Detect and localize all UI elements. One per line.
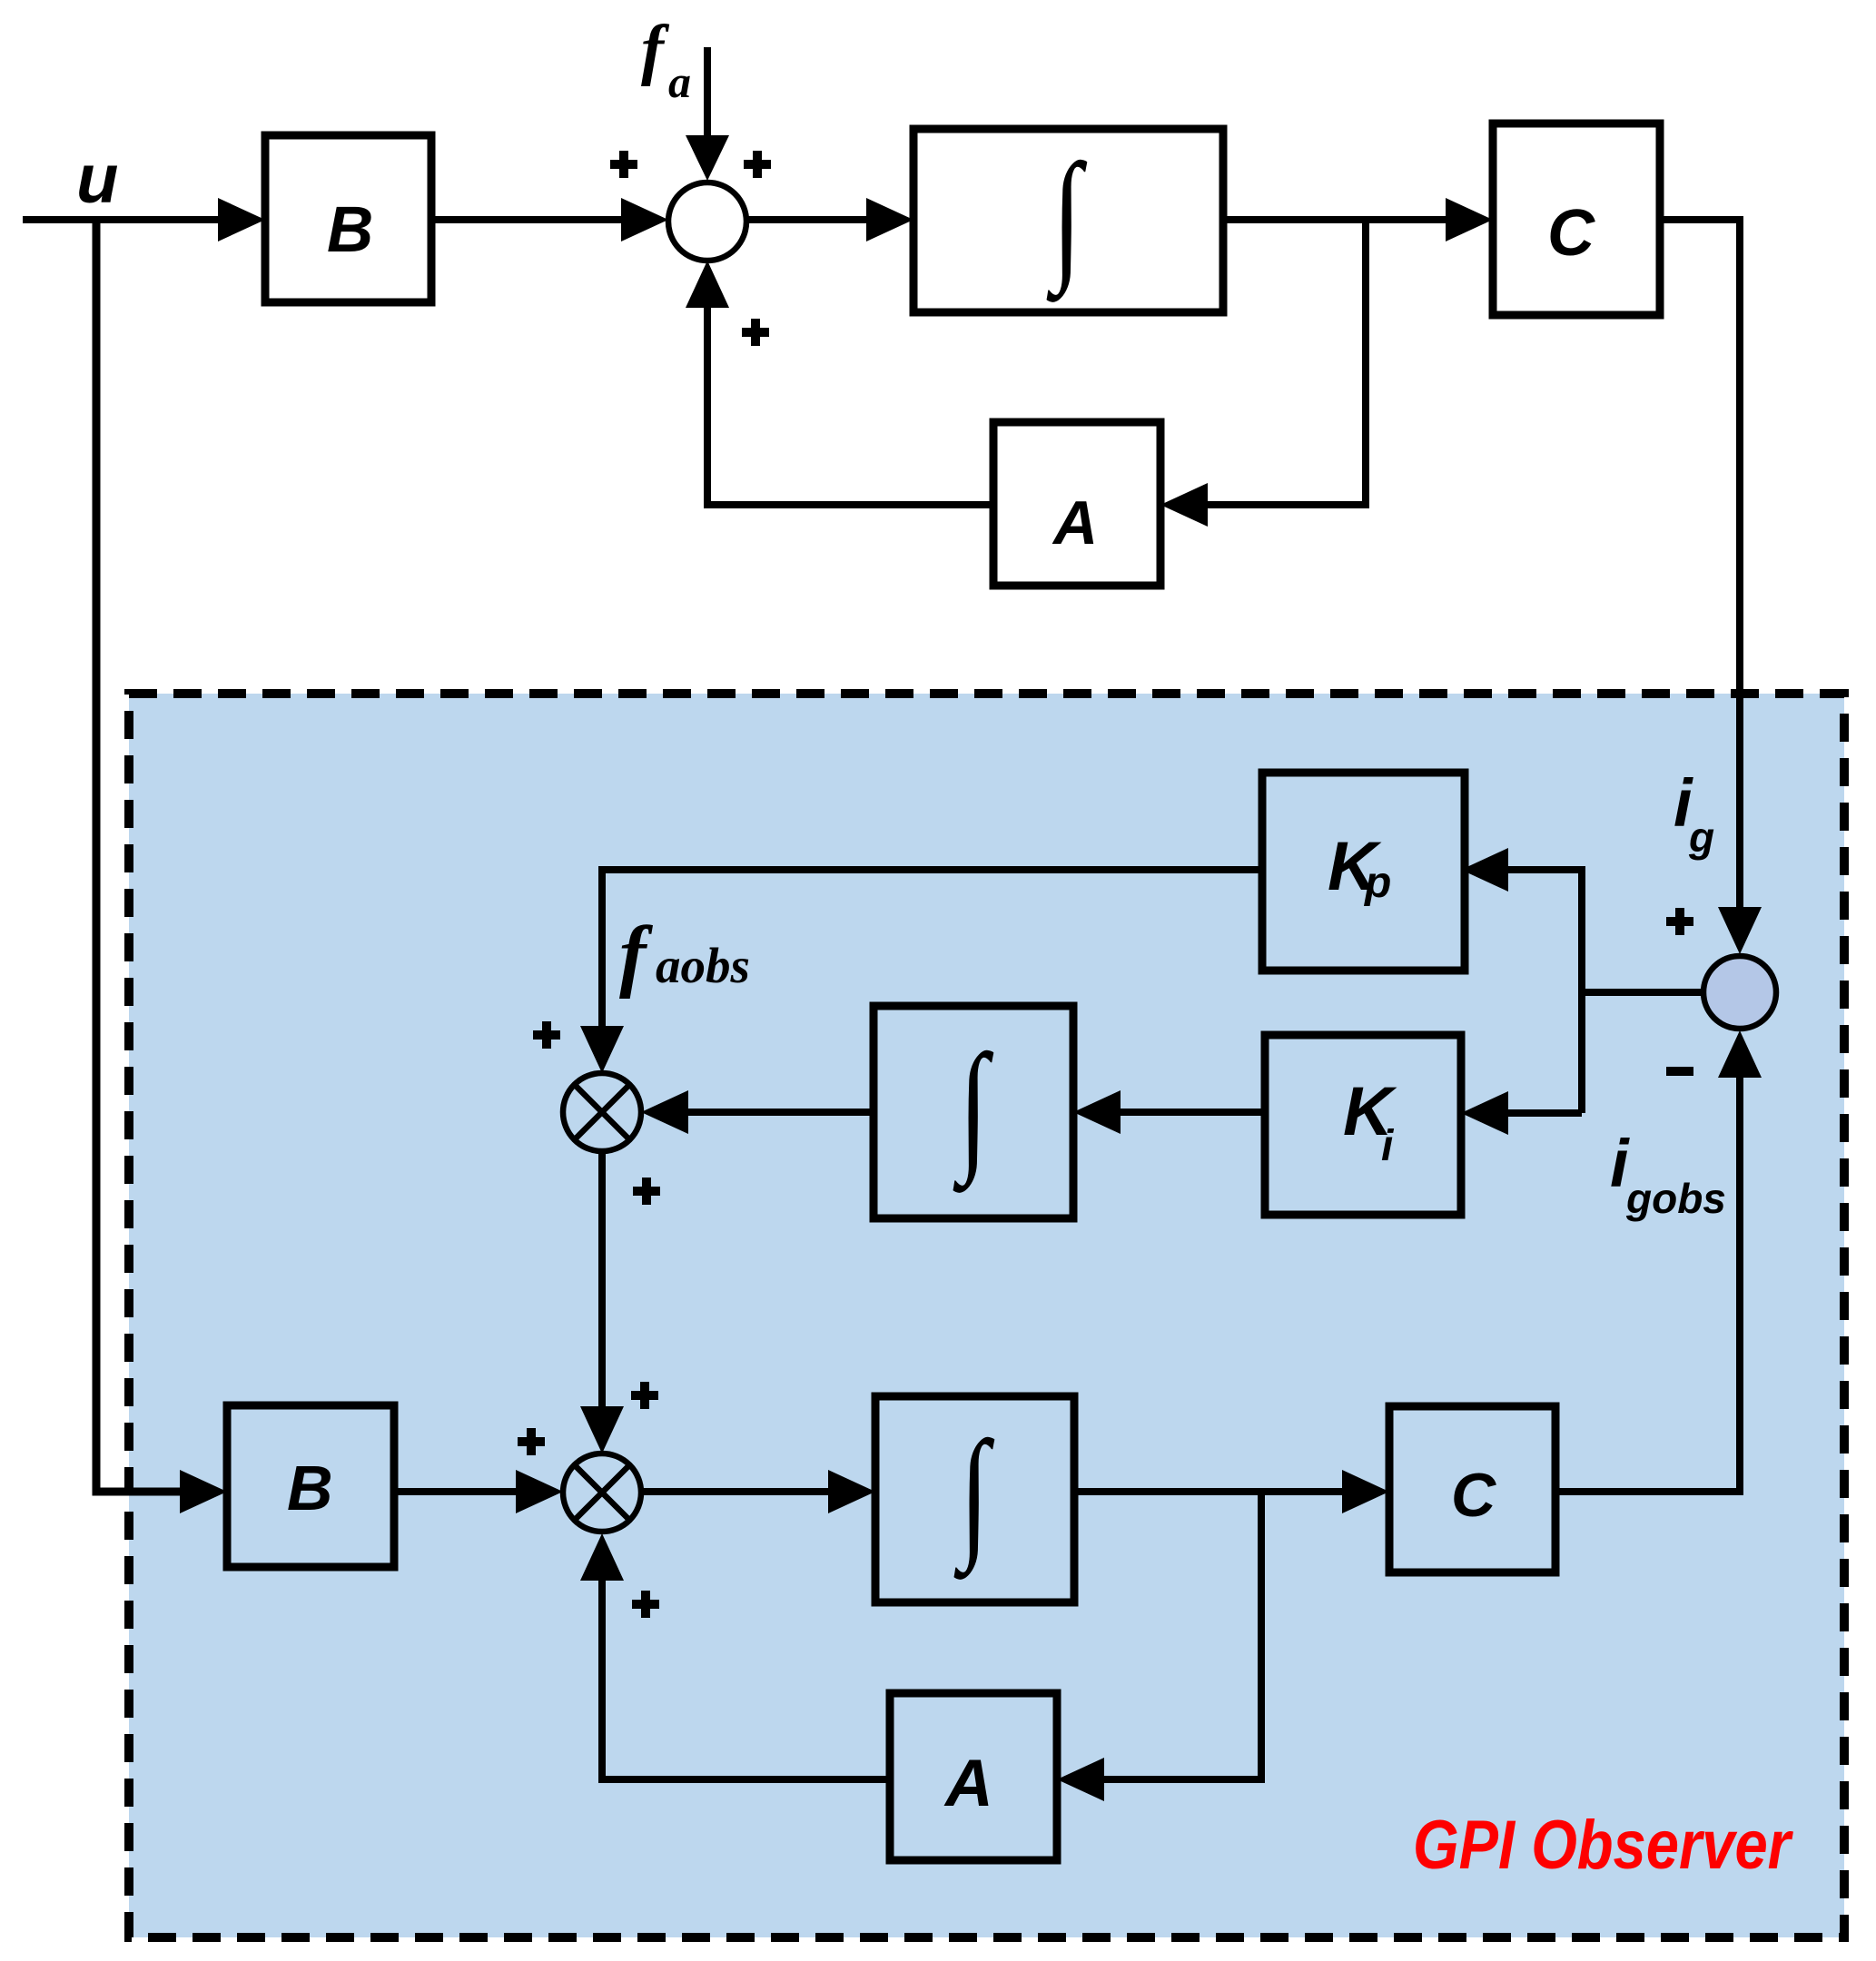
block C observer [1389, 1406, 1555, 1572]
svg-text:A: A [1052, 488, 1098, 557]
wire A observer to X2 bottom [580, 1533, 890, 1779]
minus sign below S2 [1666, 1067, 1693, 1076]
GPI Observer caption [1413, 1807, 1794, 1884]
integrator 3 block [875, 1396, 1074, 1602]
wire Kp output down to X1 [580, 870, 1262, 1073]
wire into Kp [1461, 848, 1582, 892]
wire integrator 1 to C with junction [1223, 198, 1493, 241]
summing junction S1 [668, 182, 746, 261]
svg-text:C: C [1451, 1461, 1496, 1530]
plus sign above X2 [631, 1382, 658, 1409]
wire X2 to integrator 3 [641, 1470, 875, 1513]
svg-text:∫: ∫ [1046, 135, 1087, 302]
wire fa into S1 [686, 47, 729, 181]
block Ki [1265, 1035, 1461, 1215]
svg-text:B: B [327, 194, 373, 266]
plus sign left of X2 [518, 1428, 545, 1455]
wire X1 down to X2 [580, 1151, 624, 1454]
observer summing junction S2 [1703, 956, 1776, 1029]
wire feedback branch to A [1160, 220, 1366, 527]
block A plant feedback [993, 422, 1160, 586]
plus sign left of S1 [610, 151, 637, 178]
wire integrator 3 to C observer with junction [1074, 1470, 1389, 1513]
plus sign below X2 [632, 1591, 659, 1618]
integrator 1 block [913, 129, 1223, 312]
svg-text:B: B [287, 1453, 333, 1523]
wire u input [23, 198, 265, 241]
svg-text:C: C [1547, 197, 1595, 270]
plus sign above S2 [1666, 908, 1693, 935]
block Kp [1262, 773, 1465, 971]
multiplier junction X2 [563, 1454, 641, 1532]
wire into Ki [1461, 1091, 1582, 1135]
svg-text:A: A [943, 1747, 993, 1820]
wire S2 to Kp Ki split [1582, 866, 1703, 1113]
svg-text:p: p [1363, 859, 1391, 907]
multiplier junction X1 [563, 1073, 641, 1151]
svg-text:GPI Observer: GPI Observer [1413, 1807, 1794, 1884]
disturbance fa label [641, 12, 691, 107]
wire integrator 2 to X1 [641, 1090, 874, 1134]
svg-text:∫: ∫ [953, 1026, 993, 1193]
node u label [76, 141, 118, 218]
svg-text:a: a [668, 56, 691, 107]
block C plant output [1493, 123, 1660, 315]
plus sign below X1 [633, 1178, 660, 1205]
GPI Observer dashed region [129, 694, 1844, 1937]
wire B to summing junction S1 [431, 198, 668, 241]
wire Ki to integrator 2 [1073, 1090, 1265, 1134]
svg-text:u: u [76, 141, 118, 218]
block B observer [227, 1405, 394, 1567]
node faobs label [619, 911, 750, 1000]
wire C output down to observer [1660, 220, 1762, 954]
node igobs label [1610, 1126, 1726, 1222]
wire u branch down to observer B [96, 220, 227, 1513]
wire A to S1 bottom [686, 261, 993, 505]
plus sign left of X1 [533, 1021, 560, 1049]
node ig label [1674, 765, 1714, 861]
wire branch down to A observer [1057, 1492, 1261, 1801]
wire B observer to X2 [394, 1470, 563, 1513]
svg-text:i: i [1381, 1122, 1395, 1170]
plus sign below S1 [742, 319, 769, 346]
svg-text:g: g [1688, 813, 1714, 861]
svg-text:∫: ∫ [953, 1413, 994, 1580]
svg-text:aobs: aobs [656, 938, 750, 993]
plus sign right of S1 [744, 151, 771, 178]
wire S1 to integrator 1 [746, 198, 913, 241]
block A observer [890, 1693, 1057, 1860]
integrator 2 block [874, 1006, 1073, 1218]
block B plant [265, 135, 431, 302]
svg-text:gobs: gobs [1625, 1175, 1726, 1222]
wire C observer up to S2 bottom igobs [1555, 1030, 1762, 1492]
